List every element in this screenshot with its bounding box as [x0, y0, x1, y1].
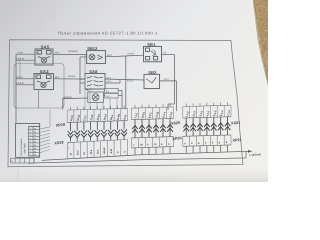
svg-text:0.5: 0.5	[90, 88, 93, 91]
svg-text:20.3: 20.3	[76, 150, 79, 155]
svg-text:Пульт блокиров.: Пульт блокиров.	[20, 138, 23, 156]
svg-text:SA2: SA2	[40, 69, 49, 74]
svg-text:3: 3	[30, 134, 31, 137]
svg-text:7: 7	[30, 147, 31, 150]
svg-text:Пульт управления КС-55727-1.80: Пульт управления КС-55727-1.80.10.000-1	[58, 30, 158, 35]
svg-text:N8.42: N8.42	[103, 147, 106, 154]
svg-text:3: 3	[37, 76, 38, 79]
svg-text:8.42: 8.42	[110, 148, 113, 153]
svg-text:5-15-8: 5-15-8	[68, 75, 75, 78]
svg-text:20: 20	[34, 147, 36, 150]
svg-text:20.6: 20.6	[90, 149, 93, 154]
svg-text:к кабине: к кабине	[249, 152, 262, 157]
svg-text:5: 5	[30, 141, 31, 144]
svg-text:9: 9	[30, 154, 31, 157]
svg-text:5-12-7: 5-12-7	[128, 52, 135, 55]
svg-text:20: 20	[34, 154, 36, 157]
svg-text:20: 20	[34, 141, 36, 144]
svg-text:2: 2	[38, 51, 39, 54]
svg-text:КПП-ГМП: КПП-ГМП	[24, 143, 27, 154]
svg-text:5-10-4: 5-10-4	[127, 80, 134, 83]
svg-text:SA8: SA8	[89, 69, 98, 74]
svg-text:5-15(5-8): 5-15(5-8)	[68, 50, 78, 53]
svg-text:20: 20	[34, 134, 36, 137]
svg-text:16.1: 16.1	[97, 149, 100, 154]
svg-text:15-4: 15-4	[55, 51, 60, 54]
svg-text:9: 9	[68, 147, 69, 150]
